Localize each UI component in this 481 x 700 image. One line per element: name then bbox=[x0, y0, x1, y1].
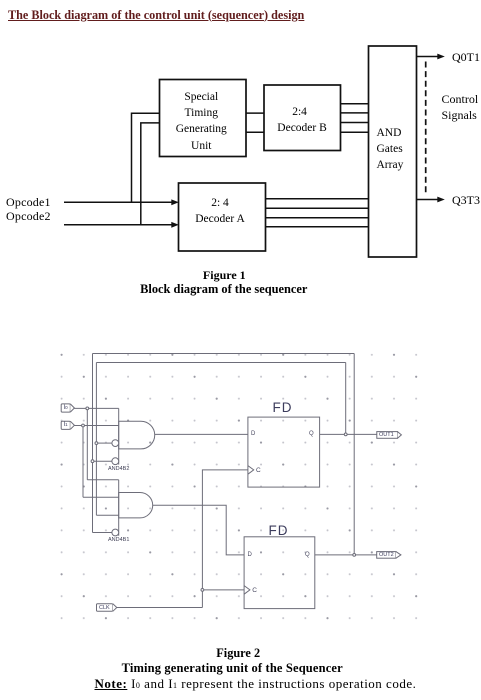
label tag OUT1 bbox=[379, 432, 394, 438]
label tag CLK bbox=[99, 605, 110, 611]
junction on I0 net bbox=[86, 407, 89, 410]
junction on I1 net bbox=[82, 424, 85, 427]
title: The Block diagram of the control unit (sequencer) design bbox=[8, 8, 304, 23]
AND4B1 pin 1 wire bbox=[87, 479, 118, 481]
wire Decoder B to AND array bus line 2 bbox=[341, 112, 369, 114]
wire FD1 Q output to OUT1 bbox=[320, 433, 377, 435]
wire Decoder B to AND array bus line 1 bbox=[341, 103, 369, 105]
input tag I1 bbox=[61, 421, 74, 429]
wire net I1 horizontal bbox=[74, 425, 119, 427]
label Q3T3 bbox=[452, 193, 480, 208]
wire Decoder A to AND array bus line 2 bbox=[266, 207, 369, 209]
wire STGU to Decoder B upper bbox=[246, 112, 264, 114]
wire output Q3T3 with arrow bbox=[417, 197, 445, 203]
wire feedback net B top (from FD1 Q to AND inputs) bbox=[96, 362, 345, 364]
block U1 Special Timing Generating Unit bbox=[160, 80, 247, 157]
AND4B1 pin 3 wire bbox=[96, 514, 118, 516]
label inside U1: Special Timing Generating Unit bbox=[158, 89, 245, 155]
dashed line control signals range bbox=[425, 62, 427, 194]
flip-flop FD1 box bbox=[248, 417, 320, 487]
block U3 AND Gates Array bbox=[369, 46, 417, 257]
wire Decoder A to AND array bus line 1 bbox=[266, 198, 369, 200]
AND4B2 pin 3 bubble bbox=[112, 440, 119, 447]
label Opcode1 bbox=[6, 195, 51, 210]
label AND4B1 bbox=[108, 537, 129, 543]
label FD2 bbox=[269, 523, 289, 538]
caption Figure 2 bbox=[138, 646, 338, 661]
caption Timing generating unit of the Sequencer bbox=[105, 661, 359, 676]
AND4B2 pin 4 inverted input wire bbox=[93, 460, 112, 462]
AND4B1 pin 4 bubble bbox=[112, 529, 119, 536]
pin label FD1 D bbox=[251, 431, 255, 437]
wire feedback net B right vertical bbox=[345, 363, 347, 435]
pin label FD1 C bbox=[256, 467, 261, 474]
label AND4B2 bbox=[108, 466, 129, 472]
wire Opcode2 input with arrow bbox=[64, 222, 179, 228]
wire Decoder B to AND array bus line 3 bbox=[341, 122, 369, 124]
wire STGU to Decoder B lower bbox=[246, 131, 264, 133]
wire AND4B2 output to FD1 D bbox=[155, 433, 248, 435]
label tag OUT2 bbox=[379, 552, 394, 558]
grid dots bbox=[61, 354, 418, 620]
wire feedback net B left vertical bbox=[95, 363, 97, 516]
label FD1 bbox=[273, 400, 293, 415]
pin label FD2 C bbox=[252, 587, 257, 594]
label inside U4: 2:4 Decoder A bbox=[177, 195, 264, 228]
caption Block diagram of the sequencer bbox=[124, 282, 324, 297]
note line bbox=[95, 676, 417, 692]
pin label FD1 Q bbox=[309, 431, 314, 437]
junction feedback A to AND4B2 pin4 bbox=[91, 460, 94, 463]
wire feedback net A left vertical bbox=[92, 354, 94, 533]
output tag OUT2 bbox=[377, 552, 401, 559]
label Control Signals bbox=[442, 92, 479, 124]
AND4B1 pin 4 inverted input wire bbox=[93, 532, 112, 534]
label Opcode2 bbox=[6, 209, 51, 224]
wire CLK branch to FD2 C bbox=[202, 589, 244, 591]
wire Decoder A to AND array bus line 4 bbox=[266, 226, 369, 228]
junction CLK to FD2 C bbox=[201, 589, 204, 592]
wire CLK vertical to FD1 C bbox=[202, 470, 248, 608]
wire Decoder A to AND array bus line 3 bbox=[266, 217, 369, 219]
wire feedback net A right vertical bbox=[353, 354, 355, 555]
wire net I0 horizontal bbox=[74, 407, 119, 409]
input tag CLK bbox=[97, 604, 117, 612]
output tag OUT1 bbox=[377, 432, 402, 439]
AND4B2 pin 4 bubble bbox=[112, 458, 119, 465]
flip-flop FD2 box bbox=[244, 537, 315, 609]
pin label FD2 Q bbox=[305, 552, 310, 558]
pin label FD2 D bbox=[248, 552, 252, 558]
wire AND4B1 output to FD2 D bbox=[153, 505, 244, 555]
label tag I0 bbox=[64, 405, 68, 411]
FD2 clock triangle pin C bbox=[244, 586, 250, 595]
junction FD2 Q line to feedback A bbox=[353, 554, 356, 557]
input tag I0 bbox=[61, 404, 74, 412]
wire net I0 branch vertical to AND4B1 bbox=[86, 408, 88, 479]
wire branch vertical from Opcode1 to STGU bbox=[132, 113, 160, 202]
caption Figure 1 bbox=[124, 268, 324, 283]
label Q0T1 bbox=[452, 50, 480, 65]
label tag I1 bbox=[64, 422, 68, 428]
block U4 2:4 Decoder A bbox=[179, 183, 266, 251]
block U2 2:4 Decoder B bbox=[264, 85, 341, 151]
wire Opcode1 input with arrow bbox=[64, 199, 179, 205]
wire CLK horizontal bbox=[117, 607, 203, 609]
AND gate AND4B2 body bbox=[119, 408, 155, 464]
label inside U3: AND Gates Array bbox=[377, 125, 404, 173]
wire net I1 branch vertical to AND4B1 bbox=[82, 426, 84, 498]
wire output Q0T1 with arrow bbox=[417, 54, 445, 60]
wire Decoder B to AND array bus line 4 bbox=[341, 131, 369, 133]
AND4B1 pin 2 wire bbox=[83, 496, 119, 498]
junction FD1 Q line to feedback B bbox=[344, 433, 347, 436]
junction feedback B to AND4B2 pin3 bbox=[95, 442, 98, 445]
wire branch vertical from Opcode2 to STGU bbox=[141, 123, 160, 225]
wire FD2 Q output to OUT2 bbox=[315, 554, 377, 556]
FD1 clock triangle pin C bbox=[248, 466, 254, 475]
AND4B2 pin 3 inverted input wire bbox=[96, 442, 112, 444]
wire feedback net A top (from FD2 Q to AND inputs) bbox=[93, 353, 355, 355]
label inside U2: 2:4 Decoder B bbox=[261, 106, 338, 118]
AND gate AND4B1 body bbox=[119, 480, 153, 536]
